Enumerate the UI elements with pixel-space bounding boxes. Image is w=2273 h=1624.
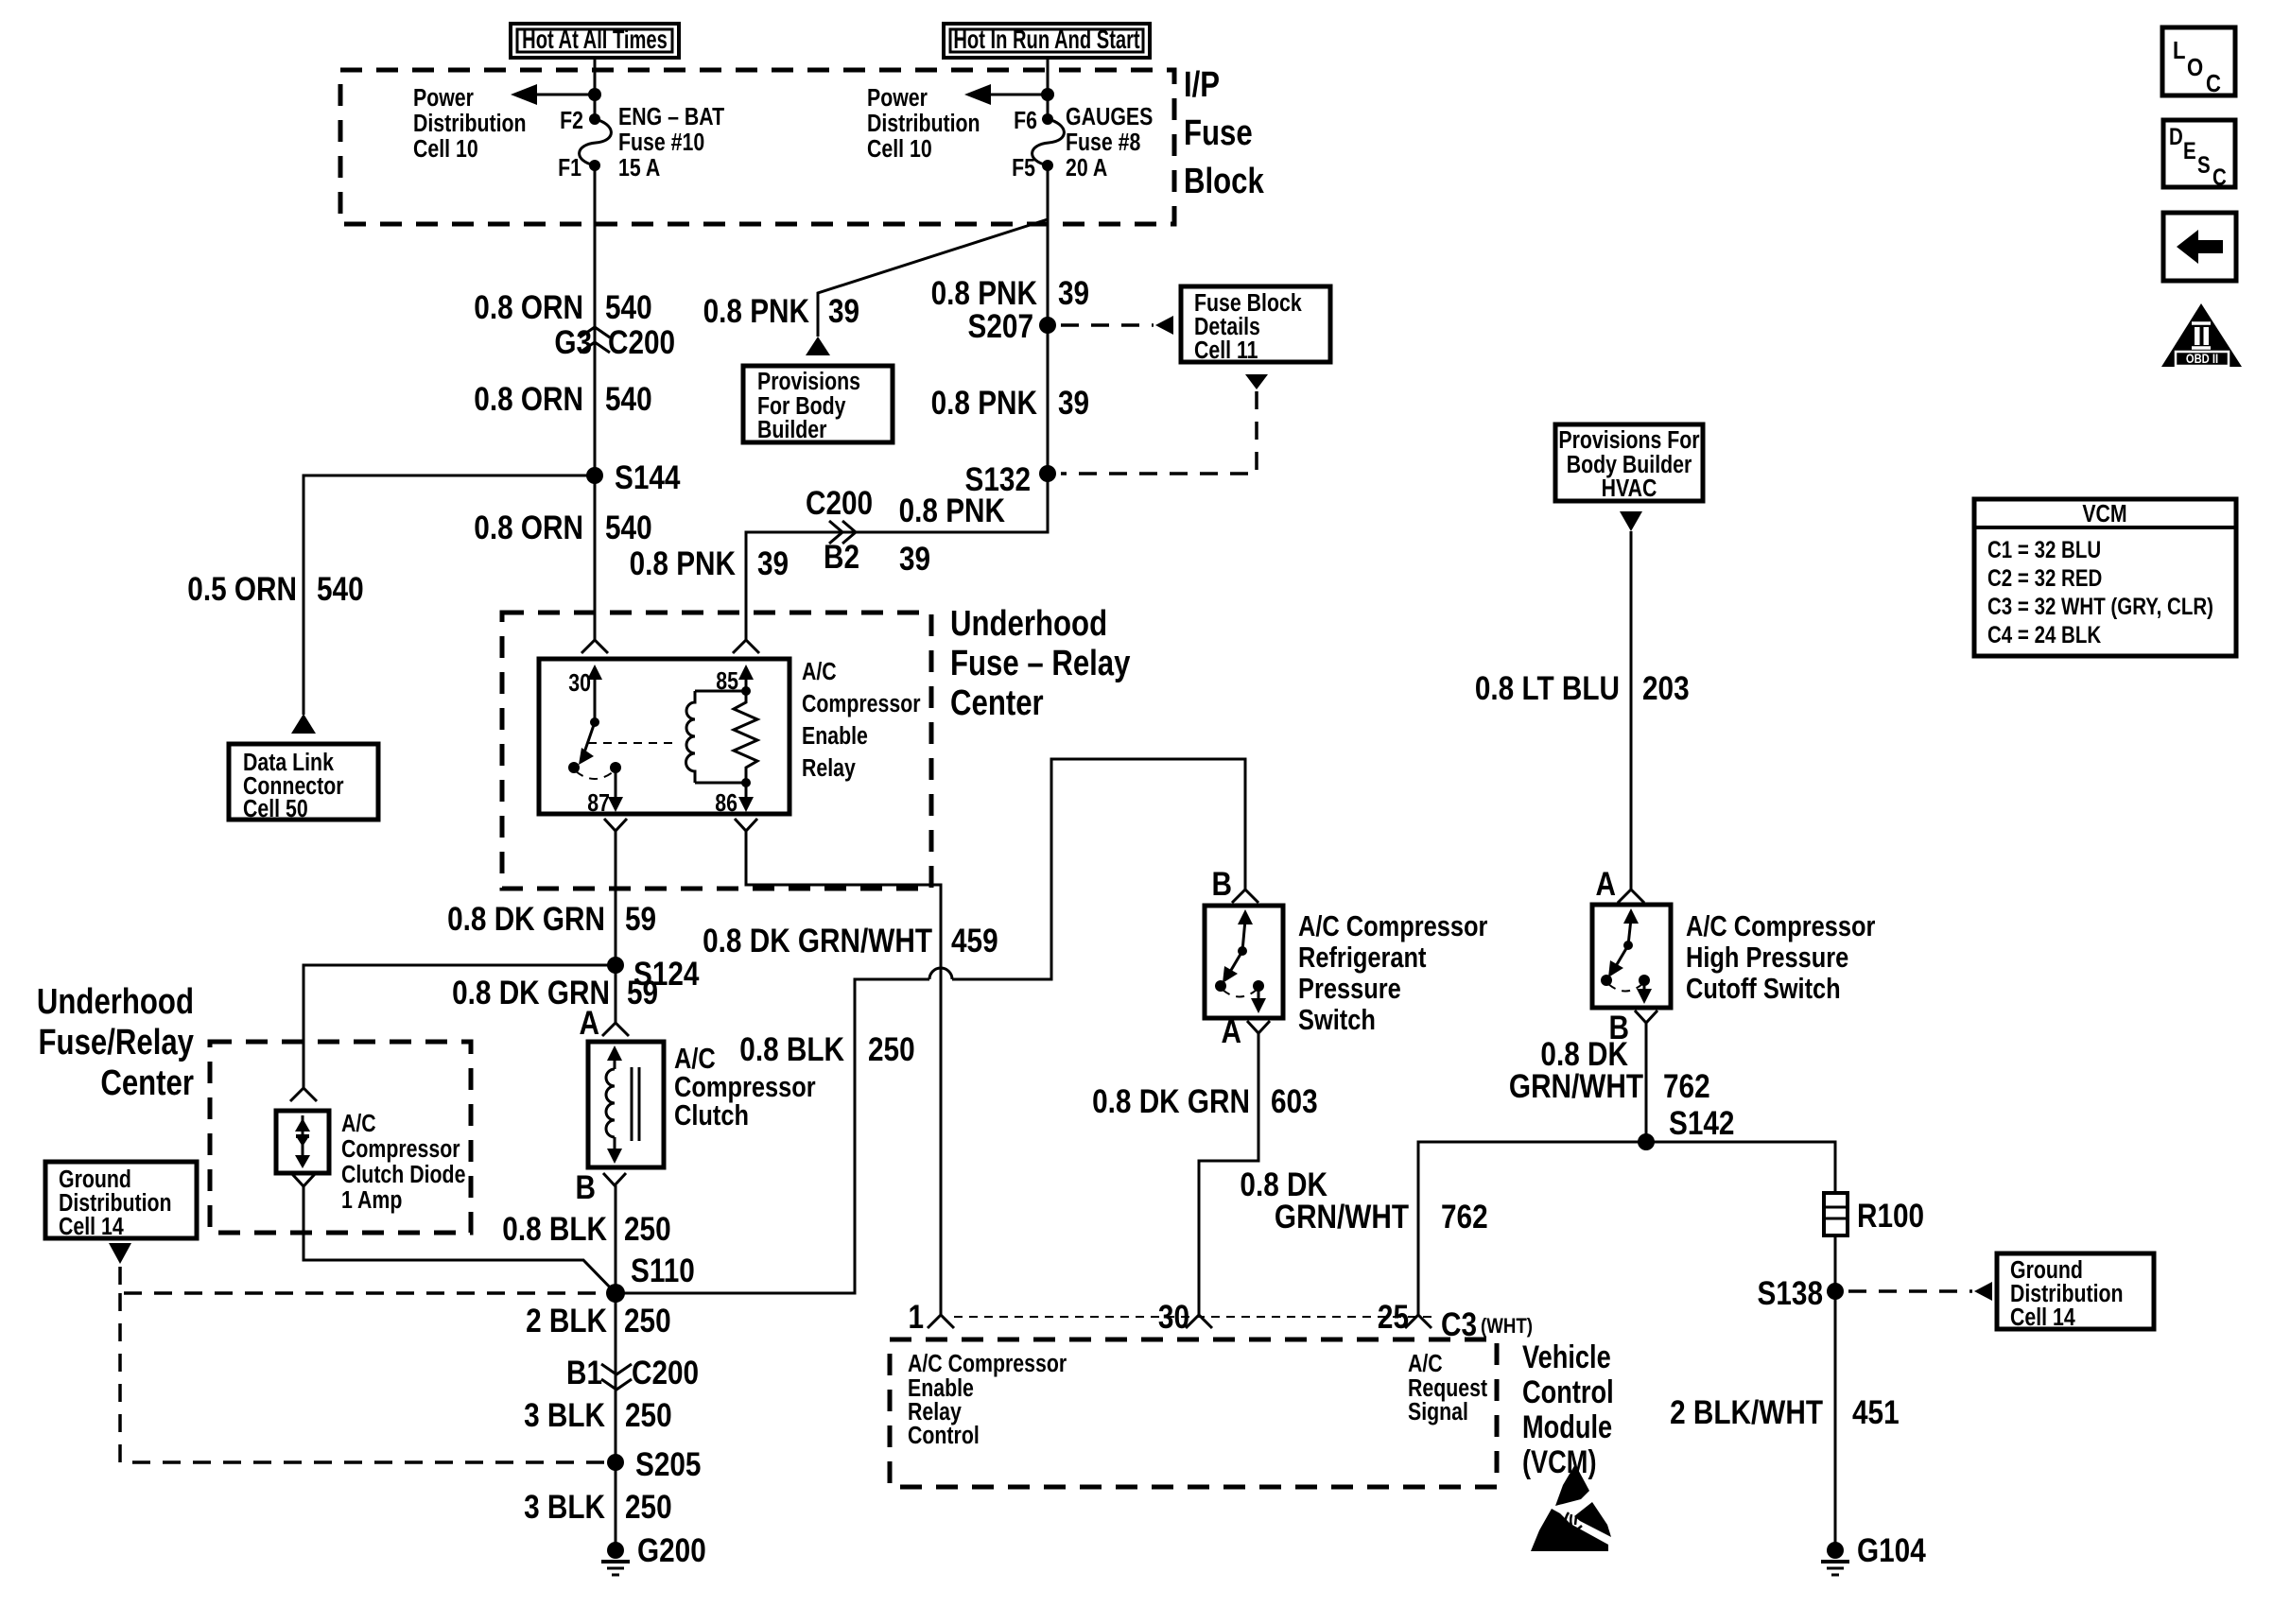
svg-text:Vehicle: Vehicle — [1522, 1339, 1611, 1375]
node Hot At All Times label box — [511, 24, 679, 58]
svg-text:540: 540 — [317, 571, 364, 608]
svg-text:C3: C3 — [1441, 1306, 1477, 1343]
svg-text:G3: G3 — [554, 324, 592, 361]
svg-text:39: 39 — [757, 545, 789, 582]
label 2 BLK/WHT 451 — [1670, 1394, 1900, 1431]
pin B high pressure switch — [1609, 1010, 1657, 1046]
svg-text:A: A — [580, 1005, 599, 1042]
VCM dashed box — [890, 1339, 1497, 1487]
svg-text:0.8 BLK: 0.8 BLK — [739, 1031, 844, 1068]
svg-text:C200: C200 — [632, 1355, 699, 1391]
label 0.8 ORN 540 upper — [474, 289, 651, 326]
arrow to provisions box — [806, 337, 830, 355]
label A/C Compressor Enable Relay — [802, 658, 921, 783]
wire 0.8 ORN 540 S144 down to relay pin 30 — [594, 475, 597, 640]
svg-text:762: 762 — [1663, 1068, 1710, 1105]
svg-text:GRN/WHT: GRN/WHT — [1275, 1199, 1409, 1235]
svg-text:Relay: Relay — [802, 754, 857, 783]
svg-text:250: 250 — [624, 1211, 671, 1248]
node S144 splice — [586, 459, 680, 496]
connector B1 C200 inline — [566, 1355, 699, 1391]
svg-text:S207: S207 — [968, 308, 1033, 345]
svg-text:0.8 LT BLU: 0.8 LT BLU — [1475, 670, 1620, 707]
relay coil bottom node — [695, 778, 751, 787]
label Underhood Fuse-Relay Center — [950, 604, 1131, 723]
svg-text:540: 540 — [605, 381, 652, 418]
wire 0.8 BLK 250 clutch B to S110 — [615, 1185, 617, 1293]
pin A clutch — [580, 1005, 629, 1042]
svg-text:Control: Control — [1522, 1373, 1614, 1410]
svg-text:Distribution: Distribution — [867, 110, 980, 138]
arrow to data link connector — [291, 714, 316, 734]
svg-text:250: 250 — [868, 1031, 915, 1068]
node S110 splice — [606, 1253, 695, 1303]
svg-text:0.5 ORN: 0.5 ORN — [187, 571, 297, 608]
high pressure switch contacts — [1601, 908, 1652, 1004]
relay switch dashed link to coil — [588, 742, 675, 744]
svg-text:250: 250 — [625, 1397, 672, 1434]
connector C200 B2 inline on horizontal wire — [806, 485, 873, 576]
svg-text:C1 = 32 BLU: C1 = 32 BLU — [1987, 536, 2101, 562]
svg-text:0.8 PNK: 0.8 PNK — [931, 385, 1038, 422]
VCM connector info box — [1974, 499, 2236, 656]
svg-text:87: 87 — [587, 789, 610, 818]
svg-text:0.8 PNK: 0.8 PNK — [703, 293, 810, 330]
svg-text:Fuse: Fuse — [1184, 113, 1253, 153]
relay pin 87 — [587, 768, 623, 818]
wire 0.8 PNK 39 S132 down and left through C200 to relay pin 85 — [746, 474, 1048, 640]
svg-text:L: L — [2173, 37, 2185, 64]
connector G3 C200 inline — [554, 324, 675, 361]
svg-text:S144: S144 — [615, 459, 680, 496]
arrow below HVAC box — [1620, 511, 1642, 531]
fuse F1 ENG-BAT Fuse #10 15A — [558, 103, 724, 182]
svg-text:F2: F2 — [560, 107, 583, 135]
resistor R100 — [1824, 1193, 1924, 1235]
pin A pressure switch — [1222, 1013, 1270, 1050]
Underhood Fuse-Relay Center dashed box — [502, 613, 931, 889]
svg-text:ENG – BAT: ENG – BAT — [618, 103, 725, 131]
node S124 splice — [607, 956, 699, 993]
svg-text:C3 = 32 WHT (GRY, CLR): C3 = 32 WHT (GRY, CLR) — [1987, 593, 2213, 619]
svg-text:B2: B2 — [824, 539, 859, 576]
svg-text:Power: Power — [867, 84, 928, 112]
svg-text:A/C Compressor: A/C Compressor — [1686, 910, 1875, 943]
label Vehicle Control Module (VCM) — [1522, 1339, 1614, 1480]
ground G200 — [601, 1532, 706, 1575]
svg-text:GRN/WHT: GRN/WHT — [1509, 1068, 1643, 1105]
svg-text:OBD II: OBD II — [2186, 352, 2218, 366]
svg-text:250: 250 — [624, 1303, 671, 1339]
svg-text:Hot In Run And Start: Hot In Run And Start — [953, 26, 1139, 55]
fuse F5 GAUGES Fuse #8 20A — [1012, 103, 1153, 182]
VCM pin line thin dashed — [954, 1316, 1433, 1318]
svg-text:Cell 10: Cell 10 — [413, 135, 478, 164]
pin 1 VCM — [908, 1299, 954, 1336]
svg-text:30: 30 — [568, 669, 591, 698]
label 0.8 PNK 39 above S207 — [931, 275, 1089, 312]
svg-text:S142: S142 — [1669, 1105, 1734, 1142]
svg-text:S110: S110 — [631, 1253, 695, 1289]
node S205 splice — [607, 1446, 701, 1483]
label A/C Compressor Clutch Diode 1 Amp — [341, 1110, 465, 1215]
icon LOC box — [2162, 27, 2235, 97]
node S138 splice — [1758, 1275, 1844, 1312]
svg-text:59: 59 — [627, 975, 658, 1011]
node Provisions For Body Builder HVAC box — [1555, 424, 1703, 503]
svg-text:Enable: Enable — [802, 722, 868, 751]
svg-text:Cell 50: Cell 50 — [243, 795, 308, 823]
node Ground Distribution Cell 14 box left — [45, 1162, 197, 1241]
svg-text:Builder: Builder — [757, 416, 826, 444]
svg-text:451: 451 — [1852, 1394, 1900, 1431]
svg-text:2 BLK: 2 BLK — [526, 1303, 607, 1339]
svg-text:O: O — [2187, 54, 2203, 81]
label Underhood Fuse/Relay Center — [37, 982, 195, 1103]
svg-text:Clutch: Clutch — [674, 1099, 749, 1132]
svg-text:S205: S205 — [635, 1446, 701, 1483]
wire 3 BLK 250 S205 to G200 — [615, 1462, 617, 1550]
svg-text:203: 203 — [1642, 670, 1690, 707]
svg-text:F1: F1 — [558, 154, 581, 182]
label A/C Compressor Refrigerant Pressure Switch — [1298, 910, 1487, 1037]
svg-text:Cell 10: Cell 10 — [867, 135, 932, 164]
label 0.8 DK GRN 59 upper — [447, 901, 656, 938]
svg-text:A: A — [1596, 866, 1616, 903]
label 0.8 BLK 250 on riser — [739, 1031, 914, 1068]
svg-text:603: 603 — [1271, 1083, 1318, 1120]
wire diode return to S110 — [304, 1186, 616, 1293]
svg-text:Underhood: Underhood — [37, 982, 194, 1022]
svg-text:39: 39 — [1058, 385, 1089, 422]
svg-text:2 BLK/WHT: 2 BLK/WHT — [1670, 1394, 1823, 1431]
svg-text:Hot At All Times: Hot At All Times — [522, 26, 668, 55]
connector terminal at relay pin 85 — [733, 640, 759, 653]
svg-text:459: 459 — [951, 923, 998, 959]
wire 0.8 DK GRN 603 to VCM pin 30 — [1199, 1033, 1258, 1315]
wire 0.8 PNK 39 from F5 down to S207 — [1047, 165, 1050, 325]
wire dashed ground distribution to S110 and S205 — [120, 1267, 605, 1462]
wire 2 BLK 250 S110 to C200 — [615, 1293, 617, 1462]
svg-text:A: A — [1222, 1013, 1241, 1050]
svg-text:C: C — [2212, 164, 2227, 190]
svg-text:(WHT): (WHT) — [1481, 1316, 1533, 1339]
diode symbol — [295, 1115, 310, 1168]
label 0.8 DK GRN/WHT 459 — [703, 923, 998, 959]
label 0.8 ORN 540 lower — [474, 510, 651, 546]
svg-text:G104: G104 — [1857, 1532, 1926, 1569]
label A/C Compressor Clutch — [674, 1043, 816, 1132]
svg-text:C2 = 32 RED: C2 = 32 RED — [1987, 564, 2102, 591]
connector terminal at diode bottom — [292, 1174, 315, 1186]
svg-text:Pressure: Pressure — [1298, 973, 1401, 1006]
label 2 BLK 250 — [526, 1303, 671, 1339]
svg-text:39: 39 — [1058, 275, 1089, 312]
svg-text:Cell 14: Cell 14 — [2010, 1304, 2075, 1332]
wire dashed reference from fuse block details down to S132 — [1061, 374, 1268, 474]
label 3 BLK 250 lower — [524, 1489, 672, 1526]
svg-text:(VCM): (VCM) — [1522, 1443, 1597, 1480]
label 0.8 DK GRN 603 — [1092, 1083, 1318, 1120]
svg-text:Distribution: Distribution — [413, 110, 527, 138]
svg-text:I/P: I/P — [1184, 65, 1220, 105]
svg-text:D: D — [2169, 123, 2183, 149]
svg-text:Signal: Signal — [1408, 1398, 1468, 1426]
svg-text:Block: Block — [1184, 162, 1264, 201]
svg-text:Control: Control — [908, 1422, 980, 1450]
pressure switch contacts — [1215, 909, 1266, 1013]
arrow below ground distribution box — [109, 1243, 131, 1264]
svg-text:0.8 DK: 0.8 DK — [1540, 1036, 1628, 1073]
svg-text:Switch: Switch — [1298, 1004, 1376, 1037]
label 0.8 DK GRN/WHT 762 lower — [1240, 1166, 1487, 1235]
svg-text:39: 39 — [899, 541, 930, 578]
svg-text:Fuse/Relay: Fuse/Relay — [39, 1023, 195, 1063]
svg-text:Clutch Diode: Clutch Diode — [341, 1161, 465, 1189]
node Provisions For Body Builder box — [743, 366, 893, 444]
connector terminal below relay pin 87 — [604, 819, 627, 831]
pin B clutch — [576, 1169, 626, 1206]
svg-text:Center: Center — [100, 1063, 194, 1103]
svg-text:39: 39 — [828, 293, 859, 330]
svg-text:R100: R100 — [1857, 1198, 1924, 1235]
svg-text:0.8 DK GRN/WHT: 0.8 DK GRN/WHT — [703, 923, 932, 959]
Underhood Fuse/Relay Center dashed box left — [210, 1042, 471, 1233]
wire 0.8 PNK S207 to S132 — [1047, 325, 1050, 474]
icon DESC box — [2163, 120, 2235, 190]
node Hot In Run And Start label box — [944, 24, 1150, 58]
wire S142 left to VCM pin 25 — [1418, 1142, 1646, 1315]
ground G104 — [1821, 1532, 1926, 1575]
svg-text:C200: C200 — [608, 324, 675, 361]
relay coil resistor — [734, 691, 757, 783]
connector terminal at diode top — [290, 1088, 317, 1101]
svg-text:E: E — [2183, 137, 2196, 164]
svg-text:Refrigerant: Refrigerant — [1298, 942, 1427, 975]
svg-text:S: S — [2197, 151, 2211, 178]
icon back arrow box — [2163, 213, 2236, 281]
node Data Link Connector Cell 50 box — [229, 744, 378, 823]
ESD sensitive symbol — [1531, 1464, 1611, 1551]
label 0.8 DK GRN 59 lower — [452, 975, 658, 1011]
svg-text:Cutoff Switch: Cutoff Switch — [1686, 973, 1841, 1006]
node power distribution branch right — [867, 84, 1054, 164]
relay pin 85 and coil top — [695, 665, 754, 696]
pin 30 VCM — [1158, 1299, 1212, 1336]
diode D1 A/C Compressor Clutch Diode box — [276, 1111, 329, 1173]
switch S1 A/C Compressor Refrigerant Pressure Switch box — [1205, 906, 1283, 1018]
svg-text:Fuse #8: Fuse #8 — [1066, 129, 1140, 157]
svg-text:540: 540 — [605, 510, 652, 546]
wire 2 BLK/WHT 451 S138 to G104 — [1834, 1291, 1837, 1550]
wire from Hot In Run And Start into fuse block — [1047, 58, 1050, 119]
label 0.8 LT BLU 203 — [1475, 670, 1690, 707]
wire 0.8 PNK 39 diagonal branch to provisions for body builder — [818, 219, 1048, 337]
label 0.8 ORN 540 middle — [474, 381, 651, 418]
node Ground Distribution Cell 14 box right — [1997, 1253, 2154, 1332]
relay pin 86 — [715, 783, 754, 818]
wire 0.8 DK GRN/WHT 762 switch B to S142 — [1645, 1023, 1648, 1142]
svg-text:Cell 11: Cell 11 — [1194, 337, 1258, 365]
svg-text:0.8 PNK: 0.8 PNK — [931, 275, 1038, 312]
clutch coil — [606, 1045, 639, 1164]
svg-text:B: B — [1212, 866, 1232, 903]
svg-text:1 Amp: 1 Amp — [341, 1186, 402, 1215]
svg-text:3 BLK: 3 BLK — [524, 1397, 605, 1434]
svg-text:25: 25 — [1378, 1299, 1409, 1336]
svg-text:High Pressure: High Pressure — [1686, 942, 1848, 975]
wire 0.8 DK GRN 59 S124 to clutch pin A — [615, 965, 617, 1023]
label 0.8 PNK 39 at relay entry — [630, 545, 789, 582]
icon OBD II triangle — [2161, 303, 2242, 367]
label 0.5 ORN 540 — [187, 571, 363, 608]
svg-text:59: 59 — [625, 901, 656, 938]
svg-text:G200: G200 — [637, 1532, 706, 1569]
wire dashed reference S138 to ground distribution — [1848, 1289, 1972, 1293]
svg-text:C200: C200 — [806, 485, 873, 522]
pin B pressure switch — [1212, 866, 1258, 903]
svg-text:HVAC: HVAC — [1602, 475, 1657, 503]
label 3 BLK 250 upper — [524, 1397, 672, 1434]
svg-text:C: C — [2206, 70, 2221, 97]
wire S124 branch to clutch diode — [304, 965, 616, 1088]
wire S142 right to resistor R100 — [1646, 1142, 1835, 1193]
label 0.8 DK GRN/WHT 762 upper — [1509, 1036, 1710, 1105]
wire 0.8 ORN 540 from F1 down — [594, 165, 597, 475]
svg-text:F5: F5 — [1012, 154, 1035, 182]
svg-text:VCM: VCM — [2082, 500, 2126, 528]
wire 0.8 LT BLU 203 to high pressure switch A — [1630, 531, 1633, 890]
relay U1 A/C Compressor Enable Relay box — [539, 659, 789, 814]
svg-text:250: 250 — [625, 1489, 672, 1526]
svg-text:A/C: A/C — [802, 658, 837, 686]
svg-text:540: 540 — [605, 289, 652, 326]
svg-text:Power: Power — [413, 84, 474, 112]
svg-text:0.8 PNK: 0.8 PNK — [630, 545, 737, 582]
wire dashed reference S207 to fuse block details — [1061, 323, 1154, 327]
svg-text:S138: S138 — [1758, 1275, 1823, 1312]
svg-text:Fuse #10: Fuse #10 — [618, 129, 704, 157]
svg-text:GAUGES: GAUGES — [1066, 103, 1153, 131]
label 0.8 PNK 39 branch — [703, 293, 859, 330]
svg-text:15 A: 15 A — [618, 154, 660, 182]
svg-text:3 BLK: 3 BLK — [524, 1489, 605, 1526]
svg-text:0.8 BLK: 0.8 BLK — [502, 1211, 607, 1248]
wire 0.8 DK GRN/WHT 459 relay 86 to VCM pin 1 — [746, 831, 941, 1315]
relay switch arm — [568, 722, 621, 779]
svg-text:762: 762 — [1441, 1199, 1488, 1235]
connector terminal below relay pin 86 — [735, 819, 757, 831]
wire 0.8 BLK 250 S110 up to pressure switch B with hop over 459 — [616, 759, 1245, 1293]
svg-text:Module: Module — [1522, 1408, 1612, 1445]
svg-text:Underhood: Underhood — [950, 604, 1107, 644]
pin 25 VCM C3 WHT — [1378, 1299, 1533, 1343]
svg-text:0.8 ORN: 0.8 ORN — [474, 289, 583, 326]
pin A high pressure switch — [1596, 866, 1644, 903]
node power distribution branch left — [413, 84, 601, 164]
svg-text:Center: Center — [950, 683, 1044, 723]
switch S2 A/C Compressor High Pressure Cutoff Switch box — [1592, 905, 1671, 1008]
relay coil inductor — [686, 691, 696, 783]
svg-text:Compressor: Compressor — [802, 690, 921, 718]
wire from Hot At All Times into fuse block — [594, 58, 597, 119]
svg-text:0.8 DK GRN: 0.8 DK GRN — [447, 901, 605, 938]
svg-text:0.8 DK: 0.8 DK — [1240, 1166, 1327, 1203]
svg-text:0.8 ORN: 0.8 ORN — [474, 510, 583, 546]
svg-text:0.8 DK GRN: 0.8 DK GRN — [1092, 1083, 1250, 1120]
svg-text:30: 30 — [1158, 1299, 1189, 1336]
wire R100 to S138 — [1834, 1235, 1837, 1291]
label I/P Fuse Block — [1184, 65, 1264, 201]
svg-text:B: B — [576, 1169, 596, 1206]
label A/C Request Signal — [1408, 1350, 1487, 1426]
svg-text:B1: B1 — [566, 1355, 602, 1391]
label 0.8 PNK 39 between S207 and S132 — [931, 385, 1089, 422]
wire 0.8 DK GRN 59 relay 87 to S124 — [615, 831, 617, 965]
node Fuse Block Details Cell 11 box — [1181, 286, 1330, 365]
svg-text:A/C Compressor: A/C Compressor — [1298, 910, 1487, 943]
node S207 splice — [968, 308, 1056, 345]
label A/C Compressor Enable Relay Control — [908, 1350, 1067, 1450]
svg-text:Cell 14: Cell 14 — [59, 1213, 124, 1241]
label A/C Compressor High Pressure Cutoff Switch — [1686, 910, 1875, 1006]
node S142 splice — [1638, 1105, 1734, 1150]
svg-text:F6: F6 — [1014, 107, 1037, 135]
relay pin 30 — [568, 665, 602, 727]
svg-text:86: 86 — [715, 789, 737, 818]
label 0.8 BLK 250 — [502, 1211, 670, 1248]
svg-text:0.8 ORN: 0.8 ORN — [474, 381, 583, 418]
wire 0.5 ORN 540 branch to data link connector — [304, 475, 595, 715]
A/C Compressor Clutch box — [588, 1042, 664, 1167]
svg-text:C4 = 24 BLK: C4 = 24 BLK — [1987, 621, 2102, 648]
I/P fuse block dashed box — [340, 70, 1174, 224]
connector terminal at relay pin 30 — [581, 640, 608, 653]
svg-text:0.8 PNK: 0.8 PNK — [899, 492, 1006, 529]
node S132 splice — [965, 461, 1056, 498]
svg-text:1: 1 — [908, 1299, 924, 1336]
svg-text:A/C: A/C — [341, 1110, 376, 1138]
svg-text:Compressor: Compressor — [341, 1135, 460, 1164]
svg-text:Fuse – Relay: Fuse – Relay — [950, 644, 1131, 683]
svg-text:20 A: 20 A — [1066, 154, 1107, 182]
